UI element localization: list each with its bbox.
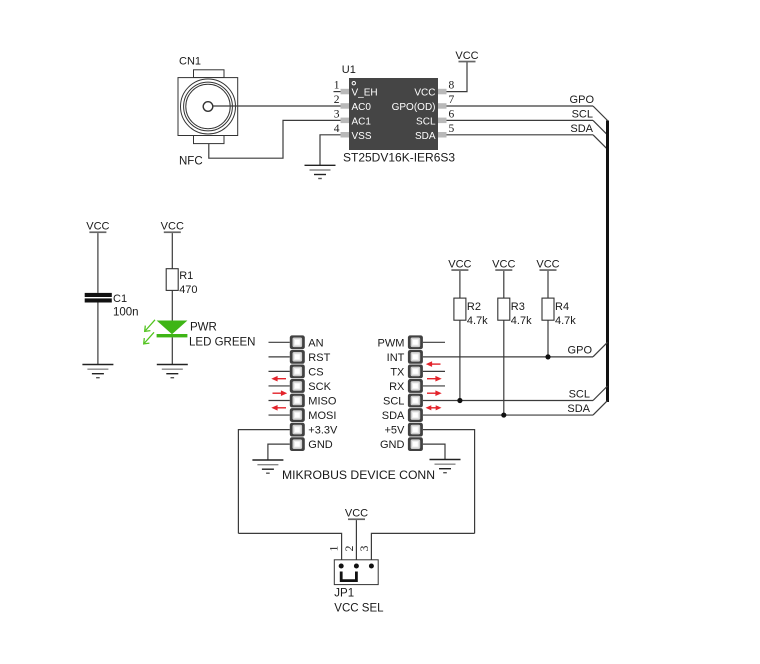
U1 pin numbers right 8-5 <box>449 80 455 135</box>
header P1 mikrobus left <box>290 335 305 451</box>
svg-text:V_EH: V_EH <box>352 88 378 99</box>
svg-text:RST: RST <box>308 352 330 364</box>
svg-text:4.7k: 4.7k <box>555 315 576 327</box>
U1 pin stubs right <box>438 89 447 138</box>
svg-text:7: 7 <box>449 94 455 106</box>
wire CN1 center to U1 AC0 pin 2 <box>213 105 341 107</box>
power VCC above R4 <box>536 258 559 271</box>
svg-text:2: 2 <box>344 545 356 551</box>
svg-text:R3: R3 <box>511 301 525 313</box>
wire VCC to R2 <box>459 271 461 298</box>
svg-text:470: 470 <box>179 284 197 296</box>
wire stub RST <box>269 356 290 358</box>
header P2 pin labels <box>378 337 406 451</box>
svg-text:CS: CS <box>308 366 323 378</box>
wire stub RX <box>423 385 445 387</box>
svg-text:VCC: VCC <box>492 258 515 270</box>
IC U1 body <box>342 64 438 150</box>
LED PWR green <box>157 321 256 349</box>
svg-text:MIKROBUS DEVICE CONN: MIKROBUS DEVICE CONN <box>282 468 435 482</box>
arrow right RX out <box>427 390 442 396</box>
power VCC above C1 <box>86 221 109 234</box>
svg-text:NFC: NFC <box>179 156 203 168</box>
wire bottom right to JP1 pin 3 <box>371 533 474 566</box>
svg-text:4: 4 <box>334 123 340 135</box>
wire VCC to JP1 pin 2 <box>355 520 357 566</box>
header P2 mikrobus right <box>408 335 423 451</box>
resistor R3 <box>498 298 532 327</box>
svg-text:R1: R1 <box>179 270 193 282</box>
wire stub CS <box>269 370 290 372</box>
svg-text:AC0: AC0 <box>352 102 372 113</box>
arrow left SCK in <box>271 376 286 382</box>
svg-text:+5V: +5V <box>385 425 406 437</box>
wire stub SCK <box>269 385 290 387</box>
resistor R2 <box>454 298 488 327</box>
wire stub MOSI <box>269 414 290 416</box>
svg-text:5: 5 <box>449 123 455 135</box>
wire stub PWM <box>423 341 445 343</box>
resistor R1 <box>166 269 197 297</box>
svg-text:SCK: SCK <box>308 381 331 393</box>
svg-text:1: 1 <box>334 80 340 92</box>
arrow right SDA bidir <box>426 405 442 410</box>
svg-text:VSS: VSS <box>352 131 372 142</box>
svg-text:AN: AN <box>308 337 323 349</box>
wire bottom left to JP1 pin 1 <box>238 533 341 566</box>
svg-text:R2: R2 <box>467 301 481 313</box>
svg-text:SCL: SCL <box>416 116 436 127</box>
ground below C1 <box>82 365 113 378</box>
wire +5V down right <box>423 430 475 534</box>
svg-text:PWM: PWM <box>378 337 405 349</box>
svg-text:MOSI: MOSI <box>308 410 336 422</box>
svg-text:VCC: VCC <box>345 508 368 520</box>
wire U1 VSS pin 4 to ground <box>320 135 341 166</box>
svg-text:+3.3V: +3.3V <box>308 425 338 437</box>
svg-text:R4: R4 <box>555 301 569 313</box>
svg-text:SDA: SDA <box>415 131 436 142</box>
wire GND left to ground <box>268 444 290 460</box>
svg-text:SCL: SCL <box>569 389 590 401</box>
arrow right TX out <box>427 376 442 382</box>
wire +3.3V down left <box>238 430 289 534</box>
svg-text:C1: C1 <box>113 293 127 305</box>
wire stub MISO <box>269 400 290 402</box>
svg-text:ST25DV16K-IER6S3: ST25DV16K-IER6S3 <box>343 151 455 165</box>
svg-text:3: 3 <box>334 108 340 120</box>
jumper JP1 <box>334 560 378 585</box>
svg-text:VCC: VCC <box>161 221 184 233</box>
ground below left header <box>252 460 283 473</box>
svg-text:2: 2 <box>334 94 340 106</box>
svg-text:SDA: SDA <box>382 410 405 422</box>
U1 pin1 stub wire <box>334 91 341 93</box>
wire GND right to ground <box>423 444 445 459</box>
svg-text:VCC: VCC <box>414 88 435 99</box>
svg-text:GPO(OD): GPO(OD) <box>392 102 436 113</box>
svg-text:TX: TX <box>390 366 405 378</box>
header P1 pin labels <box>308 337 338 451</box>
svg-text:SDA: SDA <box>567 403 590 415</box>
power VCC above R2 <box>448 258 471 271</box>
svg-text:GND: GND <box>380 439 405 451</box>
svg-text:8: 8 <box>449 80 455 92</box>
power VCC above R1 <box>161 221 184 234</box>
svg-text:6: 6 <box>449 108 455 120</box>
arrow left MISO out <box>273 390 288 396</box>
wire VCC to R1 <box>171 233 173 269</box>
svg-text:INT: INT <box>387 352 405 364</box>
U1 pin numbers left 1-4 <box>334 80 340 135</box>
U1 pin names <box>352 88 436 142</box>
svg-text:SCL: SCL <box>383 396 404 408</box>
junction R2-SCL <box>457 398 462 403</box>
svg-text:VCC: VCC <box>86 221 109 233</box>
svg-text:PWR: PWR <box>190 322 217 334</box>
wire VCC to R4 <box>547 271 549 298</box>
svg-text:CN1: CN1 <box>179 56 201 68</box>
wire VCC to C1 <box>97 233 99 293</box>
wire C1 to ground <box>97 303 99 365</box>
svg-text:GPO: GPO <box>568 345 593 357</box>
svg-text:RX: RX <box>389 381 405 393</box>
ground below right header <box>430 460 461 473</box>
junction R3-SDA <box>501 412 506 417</box>
svg-text:JP1: JP1 <box>334 588 354 600</box>
wire SDA from U1 pin 5 to bus <box>447 135 608 150</box>
power VCC above R3 <box>492 258 515 271</box>
bus vertical line right <box>606 121 609 403</box>
resistor R4 <box>542 298 576 327</box>
junction R4-INT <box>545 354 550 359</box>
wire SDA bottom from bus to header <box>423 401 608 415</box>
arrow left MOSI in <box>271 405 286 411</box>
wire stub TX <box>423 370 445 372</box>
svg-text:VCC: VCC <box>455 50 478 62</box>
U1 pin stubs left <box>341 89 350 138</box>
svg-text:VCC: VCC <box>536 258 559 270</box>
svg-text:4.7k: 4.7k <box>467 315 488 327</box>
wire VCC to R3 <box>503 271 505 298</box>
connector CN1 <box>178 56 238 144</box>
svg-text:SDA: SDA <box>570 123 593 135</box>
LED emission arrows <box>144 320 155 344</box>
svg-text:4.7k: 4.7k <box>511 315 532 327</box>
svg-text:LED GREEN: LED GREEN <box>189 336 255 348</box>
wire GPO bottom from bus to INT <box>423 342 608 357</box>
wire U1 VCC pin 8 to VCC symbol <box>447 62 468 92</box>
wire R4 down to INT row <box>547 320 549 357</box>
wire R1 to LED <box>171 290 173 320</box>
svg-text:VCC SEL: VCC SEL <box>334 603 384 615</box>
svg-text:AC1: AC1 <box>352 116 372 127</box>
svg-text:3: 3 <box>359 545 371 551</box>
wire LED to ground <box>171 337 173 364</box>
ground below U1 VSS <box>305 165 336 178</box>
wire SCL from U1 pin 6 to bus <box>447 120 608 134</box>
wire GPO from U1 pin 7 to bus <box>447 106 608 121</box>
capacitor C1 <box>85 293 139 319</box>
ground below LED <box>157 365 188 378</box>
svg-text:SCL: SCL <box>572 109 593 121</box>
wire stub AN <box>269 341 290 343</box>
svg-text:100n: 100n <box>113 307 139 319</box>
svg-text:1: 1 <box>329 545 341 551</box>
svg-text:GPO: GPO <box>570 94 595 106</box>
svg-text:MISO: MISO <box>308 396 337 408</box>
svg-text:GND: GND <box>308 439 333 451</box>
wire R3 down to SDA row <box>503 320 505 415</box>
arrow right INT in <box>426 361 441 367</box>
wire CN1 bottom tab to U1 AC1 pin 3 <box>209 120 341 158</box>
wire R2 down to SCL row <box>459 320 461 400</box>
power VCC above U1 <box>455 50 478 62</box>
svg-text:VCC: VCC <box>448 258 471 270</box>
svg-text:U1: U1 <box>342 64 356 76</box>
power VCC above JP1 <box>345 508 368 521</box>
wire SCL bottom from bus to header <box>423 386 608 401</box>
